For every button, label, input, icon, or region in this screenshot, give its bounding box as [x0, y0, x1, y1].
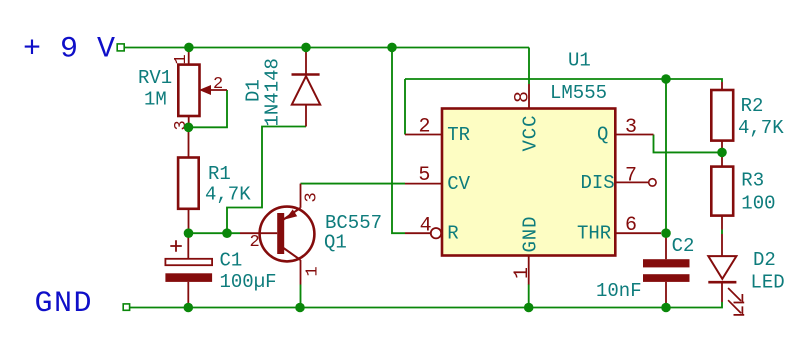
svg-text:100µF: 100µF [220, 271, 277, 293]
D1 cathode bar [292, 73, 320, 75]
wire D1 anode branch [227, 127, 306, 234]
R3 bottom pin [721, 216, 723, 230]
junction bottom rail C1 [184, 303, 194, 313]
Q1 emitter pin [300, 184, 302, 208]
wire D1 top [305, 48, 307, 53]
R2 bottom pin [721, 141, 723, 153]
svg-text:R2: R2 [741, 95, 764, 117]
Q1 emitter arrow [287, 210, 297, 218]
Q1 circle [260, 207, 315, 262]
junction R2 R3 node [717, 148, 727, 158]
svg-text:GND: GND [35, 287, 94, 321]
C1 top plate [165, 259, 212, 265]
U1 body [442, 109, 615, 256]
Q1 base pin [240, 232, 277, 234]
svg-text:GND: GND [520, 216, 542, 253]
RV1 wiper pin line [211, 89, 228, 91]
RV1 pin 1 line [188, 51, 190, 65]
svg-text:7: 7 [625, 165, 637, 188]
C1 bottom pin [187, 282, 189, 308]
C1 bottom plate [165, 273, 212, 282]
junction RV1 wiper node [184, 123, 194, 133]
Q1 collector diagonal [284, 248, 301, 260]
wire end square bottom left [123, 304, 129, 310]
svg-text:1: 1 [304, 266, 323, 276]
wire R1 bottom [188, 230, 190, 233]
D1 triangle [292, 76, 320, 104]
wire base [189, 232, 241, 234]
svg-text:10nF: 10nF [596, 280, 642, 302]
C2 top pin [665, 233, 667, 259]
wire reset from rail [392, 48, 405, 234]
potentiometer RV1 [138, 51, 227, 131]
R3 top pin [721, 152, 723, 166]
wire Q1 emitter to rail [300, 285, 302, 308]
RV1 wiper arrow [200, 86, 210, 95]
svg-text:4,7K: 4,7K [205, 184, 251, 206]
Q1 base bar [277, 213, 284, 254]
resistor R2 [711, 82, 784, 152]
svg-text:DIS: DIS [581, 172, 615, 194]
C2 bottom plate [643, 274, 690, 282]
C1 plus sign [170, 240, 182, 252]
svg-text:2: 2 [213, 75, 223, 94]
wire VCC drop [528, 48, 530, 85]
op-amp/timer U1 LM555 [405, 50, 661, 285]
svg-text:VCC: VCC [520, 115, 542, 152]
D1 anode pin [305, 105, 307, 127]
Q1 collector pin [300, 260, 302, 285]
LED D2 [708, 234, 784, 316]
svg-text:R: R [447, 223, 458, 245]
R3 body [711, 167, 733, 216]
D2 anode pin [721, 234, 723, 256]
svg-text:5: 5 [418, 164, 430, 187]
svg-text:RV1: RV1 [138, 67, 172, 89]
R1 body [178, 158, 199, 209]
svg-text:U1: U1 [568, 50, 591, 72]
svg-text:1: 1 [511, 267, 534, 279]
junction top rail reset [387, 43, 397, 53]
wire Q output [654, 135, 723, 153]
svg-text:3: 3 [303, 192, 322, 202]
wire bottom rail [130, 302, 722, 308]
svg-text:Q1: Q1 [324, 232, 347, 254]
R2 body [711, 90, 733, 141]
svg-text:R3: R3 [741, 169, 764, 191]
U1 pin 7 open end circle [649, 179, 656, 186]
wire top rail [124, 47, 529, 49]
RV1 body [178, 65, 199, 116]
wire CV to Q1 [301, 183, 406, 185]
junction top rail D1 [301, 43, 311, 53]
svg-text:+ 9 V: + 9 V [23, 33, 116, 67]
resistor R3 [711, 152, 775, 229]
U1 pin 6 THR stub [615, 232, 661, 234]
svg-text:C1: C1 [220, 250, 243, 272]
svg-text:CV: CV [447, 173, 470, 195]
wire THR vertical [665, 79, 667, 233]
R2 top pin [721, 82, 723, 90]
R1 top pin [188, 131, 190, 158]
svg-text:100: 100 [741, 192, 775, 214]
svg-text:R1: R1 [208, 163, 231, 185]
R1 bottom pin [188, 209, 190, 231]
junction top rail RV1 [184, 43, 194, 53]
U1 pin 3 Q stub [615, 134, 653, 136]
wire IC GND to rail [528, 284, 530, 307]
D2 light arrow 1 [728, 288, 744, 303]
svg-text:2: 2 [419, 116, 431, 139]
D2 triangle [708, 256, 736, 279]
D1 cathode pin [305, 51, 307, 74]
svg-text:Q: Q [597, 124, 608, 146]
wire R1 top [188, 127, 190, 131]
junction base node D1 branch [222, 228, 232, 238]
svg-text:D2: D2 [753, 249, 776, 271]
junction bottom rail Q1 [295, 303, 305, 313]
wire R3 to D2 [721, 230, 723, 235]
svg-text:4: 4 [420, 214, 432, 237]
RV1 pin 3 line [188, 116, 190, 127]
D2 light arrow 2 [728, 300, 744, 316]
junction TR line to THR drop [661, 74, 671, 84]
svg-text:3: 3 [625, 116, 637, 139]
svg-text:LM555: LM555 [550, 82, 607, 104]
wire TR over IC to R2 [405, 79, 722, 82]
C2 bottom pin [665, 282, 667, 308]
D2 cathode bar [708, 281, 736, 284]
U1 pin 4 invert circle [431, 228, 441, 238]
U1 pin 2 TR stub [405, 134, 442, 136]
junction bottom rail IC GND [524, 303, 534, 313]
Q1 emitter diagonal [284, 208, 301, 220]
wire RV1 top [188, 48, 190, 53]
wire RV1 wiper return [189, 90, 228, 127]
svg-text:6: 6 [625, 214, 637, 237]
svg-text:2: 2 [250, 233, 260, 252]
wire end square top left [117, 44, 124, 51]
U1 pin 7 DIS stub [615, 181, 648, 183]
C2 top plate [643, 259, 690, 267]
resistor R1 [178, 131, 251, 231]
svg-text:4,7K: 4,7K [738, 117, 784, 139]
transistor Q1 [240, 184, 382, 285]
capacitor C1 [165, 233, 276, 307]
junction base node R1 [184, 228, 194, 238]
diode D1 [243, 51, 321, 127]
U1 pin 1 GND stub [528, 256, 530, 285]
svg-text:LED: LED [751, 272, 785, 294]
svg-text:1N4148: 1N4148 [262, 58, 284, 126]
svg-text:1M: 1M [144, 89, 167, 111]
U1 pin 5 CV stub [405, 183, 442, 185]
svg-text:C2: C2 [672, 235, 695, 257]
C1 top pin [187, 233, 189, 259]
svg-text:1: 1 [172, 54, 191, 64]
svg-text:THR: THR [577, 222, 611, 244]
svg-text:TR: TR [447, 124, 470, 146]
junction THR C2 node [661, 228, 671, 238]
U1 pin 8 VCC stub [528, 84, 530, 109]
svg-text:8: 8 [512, 91, 535, 103]
wire TR vertical [404, 79, 406, 135]
D2 cathode pin [721, 283, 723, 302]
U1 pin 4 R stub [405, 232, 431, 234]
capacitor C2 [596, 233, 694, 307]
junction bottom rail C2 [661, 303, 671, 313]
